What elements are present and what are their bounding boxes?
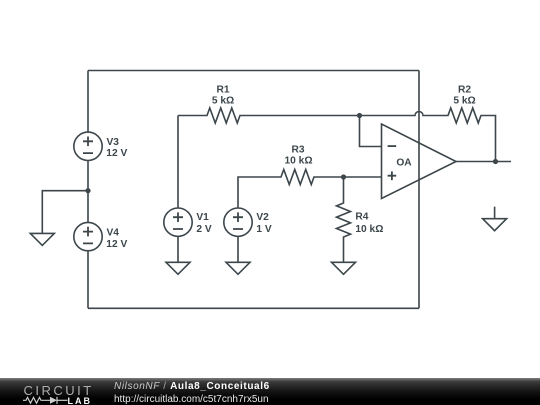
svg-text:V2: V2 — [256, 212, 269, 223]
svg-text:10 kΩ: 10 kΩ — [355, 224, 383, 235]
svg-text:R1: R1 — [216, 84, 229, 95]
svg-text:5 kΩ: 5 kΩ — [453, 96, 475, 107]
svg-text:V1: V1 — [196, 212, 209, 223]
svg-text:12 V: 12 V — [106, 239, 127, 250]
svg-text:OA: OA — [396, 158, 412, 169]
svg-text:V3: V3 — [107, 137, 120, 148]
svg-text:5 kΩ: 5 kΩ — [212, 96, 234, 107]
svg-text:10 kΩ: 10 kΩ — [285, 155, 313, 166]
svg-text:1 V: 1 V — [256, 224, 271, 235]
svg-text:R3: R3 — [291, 145, 304, 156]
svg-text:2 V: 2 V — [196, 224, 211, 235]
svg-text:R4: R4 — [355, 212, 368, 223]
svg-text:R2: R2 — [458, 84, 471, 95]
svg-text:V4: V4 — [107, 227, 120, 238]
svg-text:12 V: 12 V — [106, 148, 127, 159]
